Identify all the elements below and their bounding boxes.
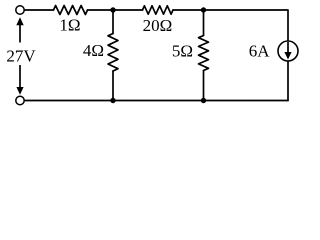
svg-text:6A: 6A: [249, 42, 271, 61]
source arrow down: [16, 65, 23, 95]
wire bottom: [24, 100, 288, 102]
wire 4ohm branch top: [112, 10, 114, 34]
current source I1 6A: [278, 41, 298, 61]
node D junction dot bottom: [201, 98, 206, 103]
wire top right: [173, 10, 288, 41]
wire top left: [24, 9, 53, 11]
svg-text:20Ω: 20Ω: [143, 16, 173, 35]
svg-text:5Ω: 5Ω: [172, 42, 193, 61]
resistor R3 4ohm: [108, 34, 118, 72]
wire 4ohm branch bottom: [112, 71, 114, 101]
resistor R1 1ohm: [54, 6, 88, 15]
wire top middle: [88, 9, 143, 11]
node A junction dot top: [110, 7, 115, 12]
terminal top left: [16, 6, 24, 14]
terminal bottom left: [16, 96, 24, 104]
node C junction dot bottom: [110, 98, 115, 103]
wire 5ohm branch top: [203, 10, 205, 36]
wire 5ohm branch bottom: [203, 71, 205, 101]
source arrow up: [16, 17, 23, 42]
node B junction dot top: [201, 7, 206, 12]
svg-text:4Ω: 4Ω: [83, 41, 104, 60]
svg-text:27V: 27V: [6, 47, 36, 66]
resistor R2 20ohm: [143, 6, 174, 14]
wire right bottom: [287, 62, 289, 101]
svg-text:1Ω: 1Ω: [59, 16, 80, 35]
resistor R4 5ohm: [199, 36, 209, 71]
